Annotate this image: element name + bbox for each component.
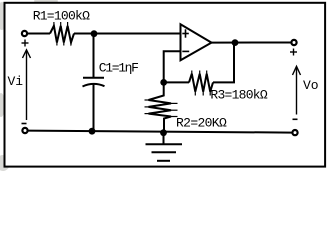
op-amp U1 <box>181 24 212 60</box>
node B: feedback junction <box>160 79 167 86</box>
op-amp - input marking <box>182 50 189 52</box>
svg-text:Vo: Vo <box>303 78 319 93</box>
op-amp + input marking <box>182 29 189 51</box>
output terminal (-) <box>292 130 297 135</box>
input + sign <box>22 40 29 47</box>
wire inverting input feedback <box>164 51 181 82</box>
wire R1 to op-amp non-inverting input <box>74 33 181 35</box>
node E: ground/rail junction <box>160 129 167 136</box>
svg-text:Vi: Vi <box>8 74 24 89</box>
output terminal (+) <box>291 40 296 45</box>
output + sign <box>290 49 297 56</box>
svg-text:R1=100kΩ: R1=100kΩ <box>33 9 90 24</box>
capacitor C1 <box>93 34 95 78</box>
node D: C1/rail junction <box>89 128 96 135</box>
resistor R1 <box>50 26 74 43</box>
node C: output node <box>232 39 239 46</box>
input terminal (+) <box>22 31 27 36</box>
svg-text:R3=180kΩ: R3=180kΩ <box>210 88 267 103</box>
svg-text:R2=20KΩ: R2=20KΩ <box>176 116 227 131</box>
Vi arrow <box>23 50 31 120</box>
resistor R3 <box>189 74 213 92</box>
wire op-amp output to output terminal <box>212 42 293 44</box>
wire R3 to output column <box>213 43 234 83</box>
resistor R2 <box>149 82 172 132</box>
input terminal (-) <box>22 128 27 133</box>
node A: R1/C1 junction <box>91 30 98 37</box>
input - sign <box>22 123 27 125</box>
wire node B to R3 <box>164 81 189 83</box>
Vo arrow <box>293 66 301 114</box>
scan smudges (decorative) <box>0 0 58 171</box>
wire input terminal to R1 <box>27 33 50 35</box>
ground <box>163 133 165 144</box>
wire bottom rail <box>27 131 293 133</box>
output - sign <box>293 118 298 120</box>
svg-text:C1=1ηF: C1=1ηF <box>99 60 138 75</box>
